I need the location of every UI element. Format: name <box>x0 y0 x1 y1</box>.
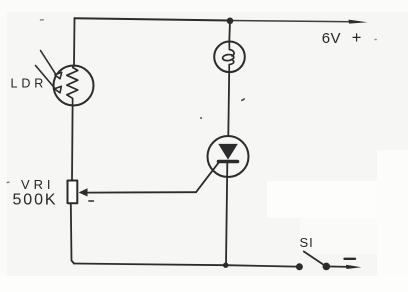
svg-text:500K: 500K <box>13 191 58 208</box>
lamp filament loop <box>229 42 234 73</box>
svg-text:LDR: LDR <box>11 77 48 91</box>
light arrow 1 <box>41 51 56 74</box>
potentiometer VR1 body <box>68 181 78 204</box>
stray tick left margin near VRI <box>7 181 9 183</box>
node: bottom junction <box>223 263 228 268</box>
switch S1 contact left <box>296 263 303 270</box>
VR1 wiper arrow from SCR gate <box>86 191 196 193</box>
wire: SCR cathode to bottom rail <box>226 163 227 265</box>
light arrow 2 <box>36 66 55 89</box>
minus sign <box>345 258 356 260</box>
switch S1 lever <box>304 252 323 265</box>
wire: bottom rail <box>74 264 296 267</box>
stray dash left of top rail corner <box>41 19 44 21</box>
svg-text:+: + <box>352 29 362 47</box>
wire: top rail, junction to supply arrow <box>230 21 352 22</box>
wire: switch to negative arrow <box>330 266 350 268</box>
supply arrowhead <box>349 20 368 24</box>
wire: top rail, LDR branch to lamp junction <box>75 18 231 20</box>
wire: lamp to SCR <box>227 72 230 136</box>
stray mark near VR1 <box>89 200 94 202</box>
stray dot left of lamp wire <box>200 117 202 119</box>
wire: VR1 to bottom rail corner <box>71 203 74 263</box>
switch S1 contact right <box>323 263 331 271</box>
svg-text:SI: SI <box>300 235 314 250</box>
LDR R1 body circle <box>54 66 94 106</box>
SCR cathode bar <box>219 160 238 164</box>
wire: gate diagonal to SCR <box>196 161 220 192</box>
node: top junction (lamp branch) <box>227 18 234 25</box>
SCR Q1 body circle <box>208 136 249 177</box>
lamp LP1 body circle <box>214 42 245 73</box>
LDR resistor zigzag <box>67 66 78 105</box>
svg-text:6V: 6V <box>322 30 341 47</box>
wire: left vertical from top rail to LDR <box>73 18 76 66</box>
wire: LDR to VR1 <box>71 105 74 180</box>
svg-text:VRI: VRI <box>21 177 54 192</box>
stray dot near 6V <box>375 39 376 41</box>
stray tick right of lamp wire <box>242 99 244 100</box>
wire: lamp branch, top rail to lamp <box>228 21 231 42</box>
SCR triangle (anode) <box>218 144 238 160</box>
